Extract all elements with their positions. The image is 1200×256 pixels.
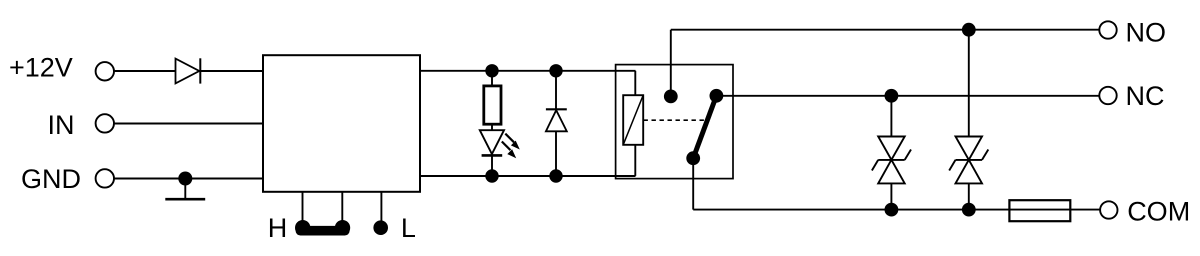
relay contact NC dot xyxy=(710,89,724,103)
wire TVS1 top xyxy=(890,96,892,137)
pin dot L xyxy=(373,220,388,235)
junction top rail D3 xyxy=(549,64,562,77)
relay K1 box xyxy=(616,65,733,179)
resistor R1 xyxy=(484,71,501,131)
diode D1 xyxy=(176,58,201,83)
junction NO rail xyxy=(962,23,976,37)
TVS1 xyxy=(872,137,911,210)
junction bottom rail D3 xyxy=(549,169,562,182)
LED arrows xyxy=(502,134,520,159)
junction bottom rail LED xyxy=(485,169,498,182)
terminal GND xyxy=(96,169,114,187)
relay actuator dashed link xyxy=(644,119,708,121)
wire GND to module xyxy=(114,178,264,180)
module box U1 xyxy=(263,55,420,192)
svg-text:L: L xyxy=(401,213,416,243)
junction top rail R1 xyxy=(485,64,498,77)
jumper on H pins xyxy=(295,220,350,236)
terminal NC xyxy=(1099,87,1116,104)
LED D2 xyxy=(480,130,504,176)
relay contact NO dot xyxy=(664,90,678,104)
wire TVS2 top xyxy=(968,30,970,137)
wire NO contact up xyxy=(670,30,672,97)
relay coil xyxy=(623,71,643,176)
TVS2 xyxy=(949,137,988,210)
pin stub H2 xyxy=(341,192,343,221)
junction COM TVS1 xyxy=(885,203,899,217)
wire top rail module to relay coil xyxy=(420,70,636,72)
relay switch arm xyxy=(693,96,716,158)
svg-text:COM: COM xyxy=(1127,197,1190,227)
wire NO rail xyxy=(671,29,1100,31)
pin stub L xyxy=(380,192,382,221)
diode D3 flyback xyxy=(546,71,567,176)
svg-text:H: H xyxy=(268,213,288,243)
relay common dot xyxy=(686,151,700,165)
wire COM rail xyxy=(693,209,1100,211)
wire bottom rail module to relay coil xyxy=(420,175,636,177)
svg-text:GND: GND xyxy=(21,164,81,194)
terminal +12V xyxy=(96,62,114,80)
terminal NO xyxy=(1099,21,1116,38)
pin stub H1 xyxy=(302,192,304,221)
junction COM TVS2 xyxy=(962,203,976,217)
terminal IN xyxy=(96,114,114,132)
svg-text:IN: IN xyxy=(48,110,75,140)
fuse F1 xyxy=(1009,200,1070,221)
junction NC rail xyxy=(885,89,899,103)
wire diode to module xyxy=(200,70,264,72)
junction GND xyxy=(178,172,192,186)
wire common down xyxy=(692,158,694,209)
wire NC rail xyxy=(716,95,1099,97)
terminal COM xyxy=(1100,201,1117,218)
wire IN to module xyxy=(114,123,264,125)
svg-text:NC: NC xyxy=(1126,81,1165,111)
ground xyxy=(165,179,205,200)
svg-text:NO: NO xyxy=(1126,18,1167,48)
wire +12V terminal to diode xyxy=(114,70,176,72)
svg-text:+12V: +12V xyxy=(9,53,73,83)
